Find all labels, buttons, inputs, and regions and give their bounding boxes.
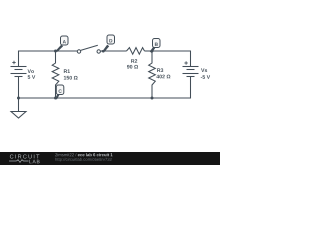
wire: top rail left (battery top to node A) — [19, 51, 56, 67]
label Vo name — [28, 69, 34, 73]
CircuitLab logo resistor glyph — [9, 160, 29, 163]
CircuitLab logo LAB — [29, 160, 39, 163]
label Vs name — [201, 68, 207, 72]
switch SW1 lever — [81, 45, 98, 50]
battery Vo plates — [11, 67, 27, 77]
resistor R1 zigzag — [52, 51, 59, 98]
ground symbol — [11, 98, 26, 118]
battery Vo plus sign — [12, 61, 15, 64]
banner text line 1 user — [55, 153, 76, 156]
label R1 value — [64, 76, 78, 80]
switch SW1 contact circles — [77, 50, 100, 53]
label Vo value — [28, 75, 36, 79]
wire: node B to right battery top — [152, 51, 191, 67]
node C junction — [54, 97, 57, 100]
wire: node A to switch left terminal — [56, 50, 78, 52]
banner text line 1 title — [78, 153, 113, 156]
label Vs value — [201, 75, 210, 79]
banner text line 2 url — [55, 158, 111, 162]
wire: switch right terminal to R2 left — [100, 50, 126, 52]
CircuitLab logo CIRCUIT — [10, 154, 40, 158]
wire: left battery bottom down to bottom rail — [18, 77, 20, 99]
label R2 name — [131, 59, 137, 63]
wire: bottom rail — [19, 77, 191, 99]
junction dots — [17, 50, 154, 100]
node A junction — [54, 50, 57, 53]
label R2 value — [127, 65, 138, 69]
wire: R2 right to node B — [145, 50, 153, 52]
footer banner — [0, 152, 220, 165]
node flag C — [55, 85, 64, 99]
node flag A — [56, 36, 69, 52]
node B junction — [151, 50, 154, 53]
node flag D — [102, 35, 115, 53]
node flag B — [150, 39, 160, 54]
label R1 name — [64, 69, 70, 73]
resistor R2 zigzag — [127, 48, 145, 55]
battery Vs plus sign — [184, 61, 187, 64]
label R3 name — [157, 68, 163, 72]
node D junction — [102, 50, 104, 52]
resistor R3 zigzag — [149, 51, 156, 98]
R3 bottom junction — [151, 97, 154, 100]
label R3 value — [156, 75, 170, 79]
bottom-left junction — [17, 97, 20, 100]
battery Vs plates (right) — [183, 67, 199, 77]
